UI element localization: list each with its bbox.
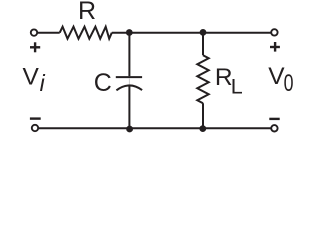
wire bottom — [39, 127, 271, 129]
node dot bottom capacitor — [126, 126, 133, 133]
svg-text:V: V — [23, 64, 40, 91]
plus sign right — [270, 42, 280, 52]
wire RL bottom lead — [202, 103, 204, 128]
svg-text:R: R — [78, 0, 96, 25]
wire capacitor bottom lead — [128, 86, 130, 129]
wire top-middle — [112, 32, 271, 34]
minus sign right — [269, 118, 279, 120]
node dot bottom RL — [199, 125, 206, 132]
node dot top capacitor — [126, 29, 133, 36]
wire RL top lead — [202, 33, 204, 56]
minus sign left — [30, 117, 41, 119]
resistor RL — [197, 55, 208, 103]
svg-text:i: i — [40, 70, 46, 96]
svg-text:L: L — [231, 74, 243, 98]
svg-text:C: C — [94, 69, 112, 97]
plus sign left — [30, 42, 40, 52]
terminal top-left — [31, 29, 37, 35]
terminal bottom-right — [271, 125, 277, 131]
capacitor C curved plate — [116, 85, 142, 90]
terminal top-right — [271, 29, 277, 35]
svg-text:0: 0 — [284, 71, 294, 97]
svg-text:V: V — [268, 63, 285, 90]
capacitor faint gap line — [128, 78, 130, 84]
wire top-left — [38, 32, 60, 34]
node dot top RL — [200, 29, 207, 36]
wire capacitor top lead — [128, 33, 130, 76]
capacitor C top plate — [116, 76, 142, 78]
terminal bottom-left — [32, 125, 38, 131]
resistor R — [60, 27, 112, 39]
